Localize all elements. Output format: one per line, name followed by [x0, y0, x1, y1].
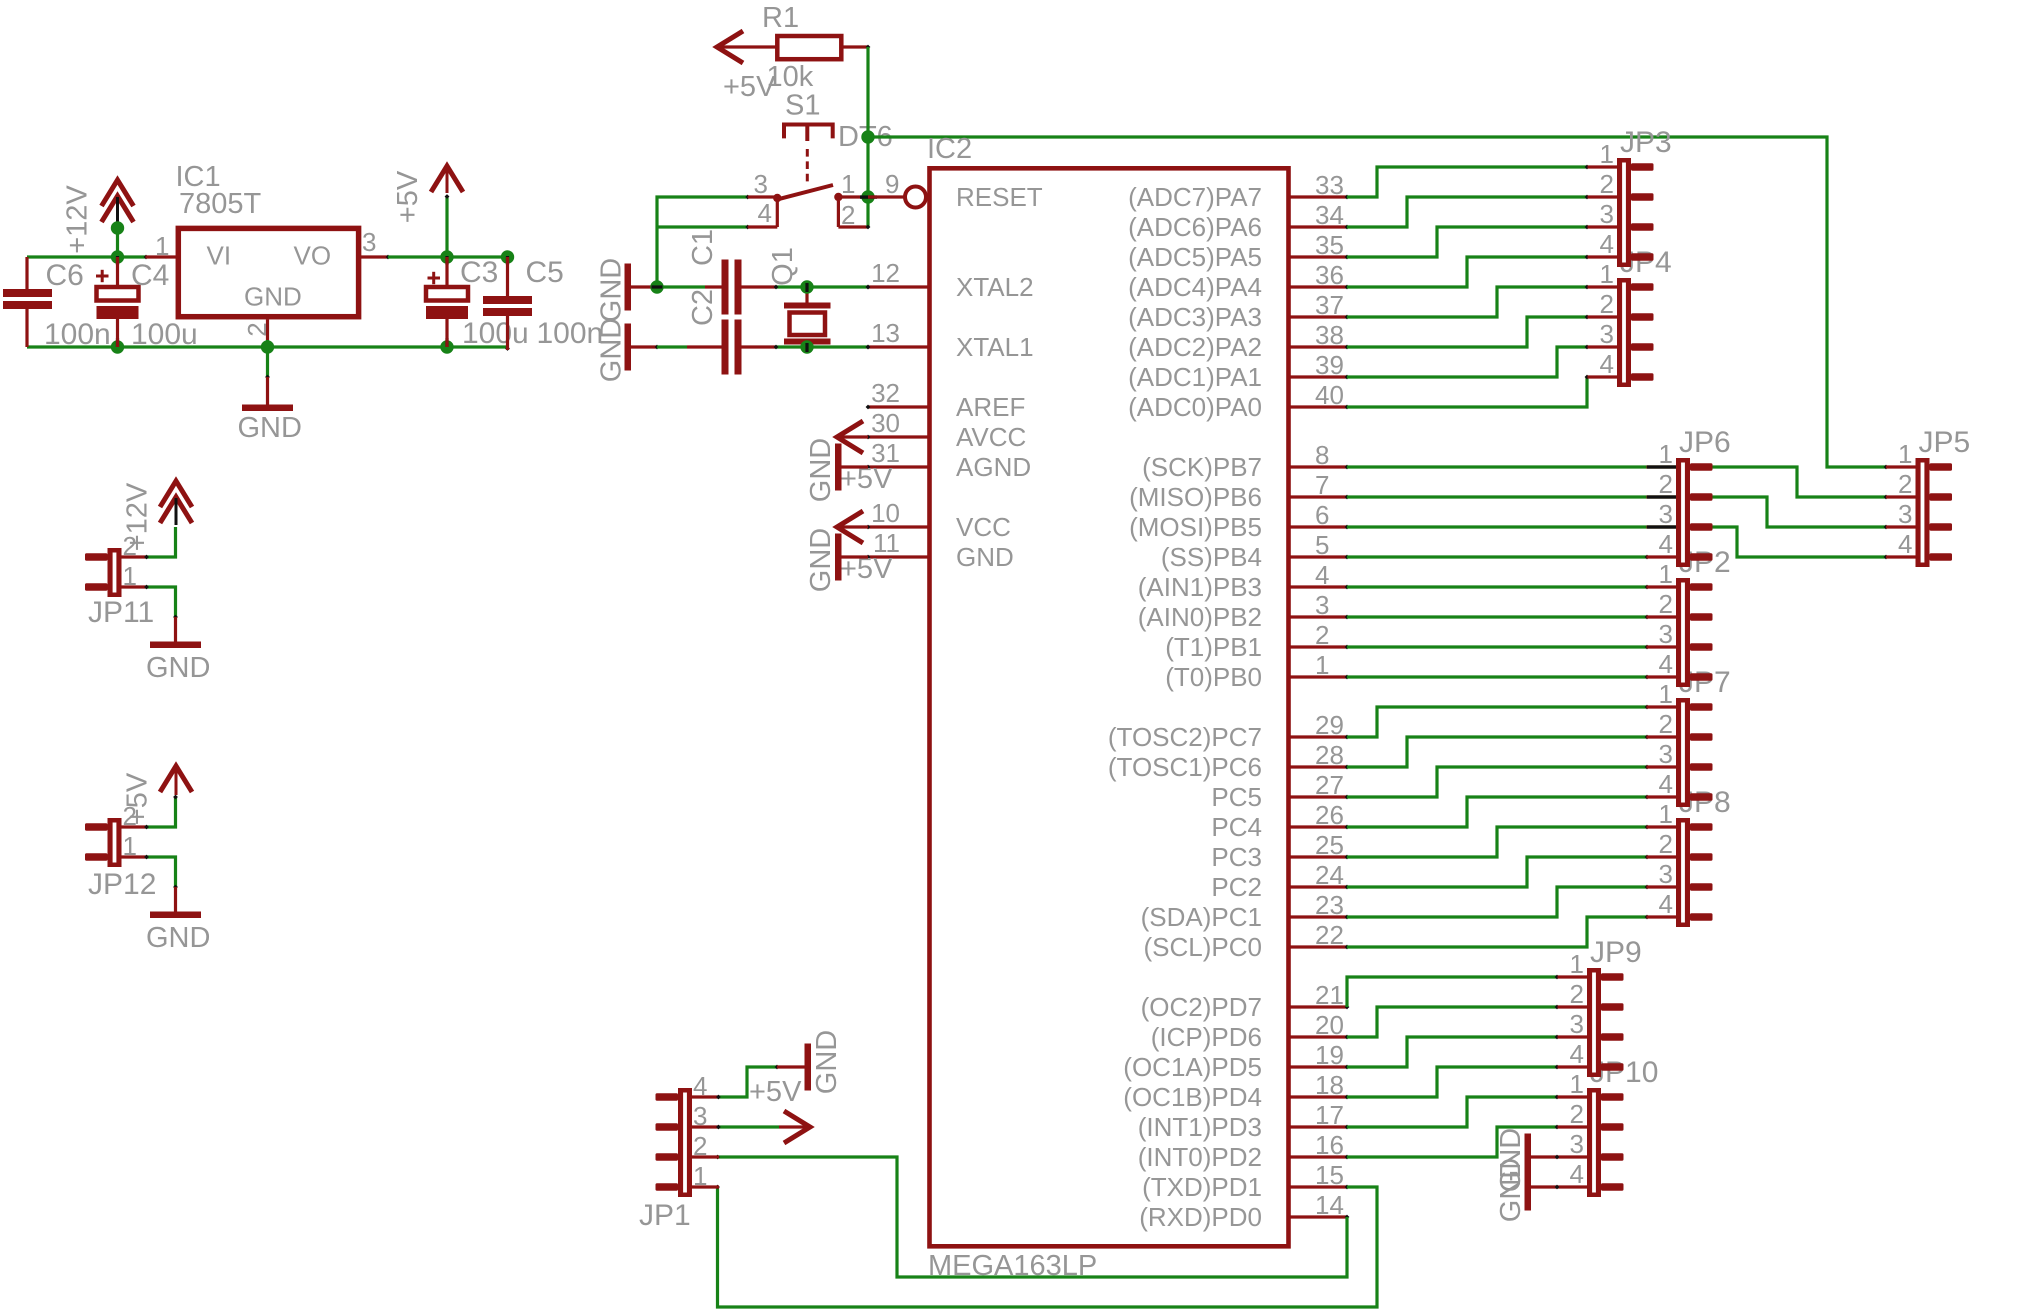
- svg-text:22: 22: [1315, 920, 1344, 950]
- svg-text:1: 1: [1898, 439, 1912, 469]
- ground GND (at JP10 pin 3): [1495, 1128, 1559, 1192]
- svg-text:10k: 10k: [767, 61, 814, 93]
- svg-text:1: 1: [123, 561, 137, 591]
- wire net PB6 (MISO): [1347, 497, 1888, 529]
- svg-text:2: 2: [1315, 620, 1329, 650]
- wire JP11 pin 2 to +12V: [144, 527, 175, 559]
- svg-text:GND: GND: [596, 258, 628, 322]
- wire net PC2: [1347, 855, 1649, 887]
- junction GND rail at C3: [440, 338, 453, 354]
- IC2 pin 38 (ADC2)PA2: [1128, 320, 1349, 362]
- svg-text:(SCK)PB7: (SCK)PB7: [1142, 452, 1262, 482]
- IC2 pin 12 XTAL2: [866, 258, 1034, 302]
- svg-text:VI: VI: [207, 241, 232, 271]
- svg-text:4: 4: [1659, 889, 1673, 919]
- svg-text:+5V: +5V: [122, 772, 154, 825]
- connector JP1: [639, 1071, 719, 1232]
- wire net PB0: [1347, 675, 1649, 680]
- wire net PA5: [1347, 225, 1589, 257]
- svg-text:3: 3: [754, 169, 768, 199]
- svg-text:4: 4: [1659, 649, 1673, 679]
- svg-text:S1: S1: [785, 90, 820, 122]
- svg-text:13: 13: [871, 318, 900, 348]
- svg-text:33: 33: [1315, 170, 1344, 200]
- svg-text:3: 3: [1600, 319, 1614, 349]
- wire JP12 pin 2 to +5V: [144, 795, 178, 830]
- IC2 pin 15 (TXD)PD1: [1142, 1160, 1349, 1202]
- ground GND (at C2): [596, 318, 660, 382]
- svg-text:AGND: AGND: [956, 452, 1031, 482]
- wire net PA6: [1347, 195, 1589, 227]
- IC2 pin 23 (SDA)PC1: [1141, 890, 1350, 932]
- power symbol +5V (at VCC): [837, 511, 893, 585]
- connector JP4: [1588, 246, 1672, 387]
- svg-text:PC5: PC5: [1211, 782, 1262, 812]
- svg-text:(ADC1)PA1: (ADC1)PA1: [1128, 362, 1262, 392]
- IC2 pin 11 GND: [866, 528, 1014, 572]
- svg-text:2: 2: [1659, 589, 1673, 619]
- svg-text:39: 39: [1315, 350, 1344, 380]
- svg-text:1: 1: [155, 231, 169, 261]
- junction XTAL2 at Q1: [800, 280, 813, 293]
- svg-text:(SDA)PC1: (SDA)PC1: [1141, 902, 1262, 932]
- connector JP11: [85, 531, 154, 629]
- svg-text:(ICP)PD6: (ICP)PD6: [1151, 1022, 1262, 1052]
- wire net PC1: [1347, 885, 1649, 917]
- svg-text:9: 9: [885, 169, 899, 199]
- svg-text:1: 1: [123, 831, 137, 861]
- svg-text:PC4: PC4: [1211, 812, 1262, 842]
- svg-text:3: 3: [1659, 859, 1673, 889]
- svg-text:JP11: JP11: [88, 596, 154, 629]
- IC2 pin 39 (ADC1)PA1: [1128, 350, 1349, 392]
- svg-text:17: 17: [1315, 1100, 1344, 1130]
- ground GND (below JP12): [146, 887, 210, 954]
- voltage regulator IC1 7805T: [146, 161, 391, 340]
- svg-text:C4: C4: [131, 259, 169, 292]
- svg-text:C2: C2: [687, 289, 719, 326]
- svg-text:6: 6: [1315, 500, 1329, 530]
- IC2 pin 7 (MISO)PB6: [1129, 470, 1349, 512]
- svg-text:2: 2: [841, 200, 855, 230]
- wire net PB5 (MOSI): [1347, 527, 1888, 559]
- svg-text:3: 3: [1659, 619, 1673, 649]
- wire JP1 pin 4 to GND: [716, 1065, 779, 1100]
- wire S1 to RESET: [866, 197, 871, 229]
- ground GND (at JP10 pin 4): [1495, 1158, 1559, 1222]
- wire net PC7: [1347, 705, 1649, 737]
- IC2 pin 29 (TOSC2)PC7: [1108, 710, 1350, 752]
- svg-text:26: 26: [1315, 800, 1344, 830]
- svg-text:(ADC6)PA6: (ADC6)PA6: [1128, 212, 1262, 242]
- ground GND (at AGND): [805, 438, 868, 502]
- connector JP5: [1886, 426, 1970, 567]
- wire net PB4 (SS): [1347, 555, 1649, 560]
- svg-text:4: 4: [693, 1071, 707, 1101]
- svg-text:3: 3: [362, 227, 376, 257]
- svg-text:(AIN1)PB3: (AIN1)PB3: [1138, 572, 1262, 602]
- wire net PA2: [1347, 315, 1589, 347]
- connector JP12: [85, 801, 156, 901]
- svg-text:1: 1: [693, 1161, 707, 1191]
- svg-text:100n: 100n: [44, 318, 111, 351]
- svg-text:VO: VO: [294, 241, 332, 271]
- svg-text:VCC: VCC: [956, 512, 1011, 542]
- IC2 pin 13 XTAL1: [866, 318, 1034, 362]
- IC2 pin 1 (T0)PB0: [1165, 650, 1349, 692]
- IC2 pin 4 (AIN1)PB3: [1138, 560, 1350, 602]
- svg-text:(TOSC2)PC7: (TOSC2)PC7: [1108, 722, 1262, 752]
- svg-text:JP12: JP12: [88, 868, 156, 901]
- IC2 pin 3 (AIN0)PB2: [1138, 590, 1350, 632]
- svg-text:GND: GND: [238, 412, 302, 444]
- svg-text:3: 3: [1898, 499, 1912, 529]
- wire net PA4: [1347, 255, 1589, 287]
- svg-text:GND: GND: [805, 438, 837, 502]
- svg-text:JP9: JP9: [1590, 936, 1642, 969]
- wire net PB1: [1347, 645, 1649, 650]
- svg-text:XTAL2: XTAL2: [956, 272, 1034, 302]
- wire net PD6: [1347, 1005, 1559, 1037]
- svg-text:20: 20: [1315, 1010, 1344, 1040]
- svg-text:IC2: IC2: [927, 133, 972, 165]
- wire JP1 pin 3 to +5V: [716, 1125, 779, 1130]
- svg-text:21: 21: [1315, 980, 1344, 1010]
- wire net RXD PD0 to JP1 pin 2: [715, 1155, 1347, 1277]
- capacitor C1: [687, 229, 776, 315]
- IC2 pin 28 (TOSC1)PC6: [1108, 740, 1350, 782]
- wire net PB3: [1347, 585, 1649, 590]
- wire GND to S1 and C1: [657, 195, 750, 287]
- IC2 pin 17 (INT1)PD3: [1138, 1100, 1350, 1142]
- svg-text:2: 2: [1600, 169, 1614, 199]
- svg-text:(SS)PB4: (SS)PB4: [1161, 542, 1262, 572]
- svg-text:(AIN0)PB2: (AIN0)PB2: [1138, 602, 1262, 632]
- svg-text:14: 14: [1315, 1190, 1344, 1220]
- svg-text:GND: GND: [146, 922, 210, 954]
- svg-text:4: 4: [1600, 229, 1614, 259]
- svg-text:40: 40: [1315, 380, 1344, 410]
- svg-text:RESET: RESET: [956, 182, 1043, 212]
- svg-text:3: 3: [1570, 1129, 1584, 1159]
- wire net PC6: [1347, 735, 1649, 767]
- connector JP7: [1647, 666, 1731, 807]
- svg-text:4: 4: [1315, 560, 1329, 590]
- svg-text:(T1)PB1: (T1)PB1: [1165, 632, 1262, 662]
- svg-text:1: 1: [841, 169, 855, 199]
- IC2 pin 16 (INT0)PD2: [1138, 1130, 1350, 1172]
- svg-text:37: 37: [1315, 290, 1344, 320]
- svg-text:PC2: PC2: [1211, 872, 1262, 902]
- power symbol +5V (at JP12): [122, 766, 193, 825]
- ground GND (below JP11): [146, 617, 210, 684]
- svg-text:36: 36: [1315, 260, 1344, 290]
- junction GND rail at IC1 pin 2: [261, 340, 274, 353]
- wire GND to C2: [657, 345, 687, 348]
- connector JP8: [1647, 786, 1731, 927]
- power symbol +12V (at JP11): [122, 481, 193, 551]
- svg-text:JP1: JP1: [639, 1199, 691, 1232]
- svg-text:JP3: JP3: [1620, 126, 1672, 159]
- svg-text:+5V: +5V: [749, 1076, 802, 1108]
- ground GND below IC1: [238, 377, 302, 444]
- svg-text:4: 4: [1659, 529, 1673, 559]
- IC2 pin 20 (ICP)PD6: [1151, 1010, 1350, 1052]
- wire +12V input rail: [27, 228, 148, 259]
- svg-text:4: 4: [1898, 529, 1912, 559]
- svg-text:JP5: JP5: [1919, 426, 1971, 459]
- capacitor C5: [483, 256, 603, 350]
- wire net PC3: [1347, 825, 1649, 857]
- IC2 pin 37 (ADC3)PA3: [1128, 290, 1349, 332]
- svg-text:(MISO)PB6: (MISO)PB6: [1129, 482, 1262, 512]
- svg-text:3: 3: [693, 1101, 707, 1131]
- svg-text:GND: GND: [146, 652, 210, 684]
- svg-text:C5: C5: [526, 256, 564, 289]
- svg-text:(TXD)PD1: (TXD)PD1: [1142, 1172, 1262, 1202]
- wire net PA1: [1347, 345, 1589, 377]
- svg-text:32: 32: [871, 378, 900, 408]
- microcontroller IC2 MEGA163LP: [927, 133, 1289, 1282]
- IC2 pin 9 RESET with inversion bubble: [868, 169, 1043, 212]
- IC2 pin 8 (SCK)PB7: [1142, 440, 1349, 482]
- svg-text:+12V: +12V: [122, 482, 154, 551]
- IC2 pin 24 PC2: [1211, 860, 1349, 902]
- svg-text:(OC2)PD7: (OC2)PD7: [1141, 992, 1262, 1022]
- wire net PA3: [1347, 285, 1589, 317]
- svg-text:(OC1A)PD5: (OC1A)PD5: [1123, 1052, 1262, 1082]
- junction +12V at C4: [111, 250, 124, 265]
- svg-text:(MOSI)PB5: (MOSI)PB5: [1129, 512, 1262, 542]
- wire JP11 pin 1 to GND: [144, 585, 178, 620]
- svg-text:5: 5: [1315, 530, 1329, 560]
- IC2 pin 30 AVCC: [866, 408, 1027, 452]
- svg-text:2: 2: [1659, 709, 1673, 739]
- wire net PA7: [1347, 165, 1589, 197]
- svg-text:(ADC2)PA2: (ADC2)PA2: [1128, 332, 1262, 362]
- resistor R1 10k: [762, 2, 870, 93]
- svg-text:2: 2: [1570, 979, 1584, 1009]
- IC2 pin 33 (ADC7)PA7: [1128, 170, 1349, 212]
- svg-text:100n: 100n: [537, 317, 604, 350]
- svg-text:25: 25: [1315, 830, 1344, 860]
- svg-text:(OC1B)PD4: (OC1B)PD4: [1123, 1082, 1262, 1112]
- capacitor C4 (polarized): [96, 257, 198, 351]
- svg-text:(SCL)PC0: (SCL)PC0: [1144, 932, 1262, 962]
- wire net XTAL1: [774, 345, 871, 350]
- wire net PC5: [1347, 765, 1649, 797]
- svg-text:(ADC5)PA5: (ADC5)PA5: [1128, 242, 1262, 272]
- svg-text:1: 1: [1659, 799, 1673, 829]
- svg-text:2: 2: [1570, 1099, 1584, 1129]
- wire net TXD PD1 to JP1 pin 1: [715, 1185, 1377, 1307]
- IC2 pin 21 (OC2)PD7: [1141, 980, 1350, 1022]
- svg-text:1: 1: [1315, 650, 1329, 680]
- svg-text:28: 28: [1315, 740, 1344, 770]
- svg-text:15: 15: [1315, 1160, 1344, 1190]
- svg-text:3: 3: [1659, 739, 1673, 769]
- svg-text:C1: C1: [687, 229, 719, 266]
- power symbol +5V (at C3): [392, 166, 463, 223]
- switch S1 actuator dashed line: [806, 149, 809, 186]
- svg-text:(RXD)PD0: (RXD)PD0: [1139, 1202, 1262, 1232]
- IC2 pin 31 AGND: [866, 438, 1032, 482]
- svg-text:1: 1: [1659, 679, 1673, 709]
- svg-text:3: 3: [1570, 1009, 1584, 1039]
- capacitor C3 (polarized): [426, 256, 529, 350]
- ground GND (at IC2 GND): [805, 528, 868, 592]
- crystal Q1: [767, 247, 831, 347]
- IC2 pin 27 PC5: [1211, 770, 1349, 812]
- wire net PD2: [1347, 1125, 1559, 1157]
- svg-text:+12V: +12V: [62, 185, 94, 254]
- svg-text:PC3: PC3: [1211, 842, 1262, 872]
- wire GND bottom rail: [27, 340, 510, 379]
- wire net PD7: [1347, 975, 1559, 1007]
- svg-text:19: 19: [1315, 1040, 1344, 1070]
- wire net DT6: [868, 47, 1888, 469]
- svg-text:38: 38: [1315, 320, 1344, 350]
- svg-text:AREF: AREF: [956, 392, 1025, 422]
- svg-text:24: 24: [1315, 860, 1344, 890]
- svg-text:GND: GND: [811, 1030, 843, 1094]
- connector JP9: [1558, 936, 1642, 1077]
- IC2 pin 32 AREF: [866, 378, 1026, 422]
- svg-text:30: 30: [871, 408, 900, 438]
- IC2 pin 36 (ADC4)PA4: [1128, 260, 1349, 302]
- svg-text:2: 2: [242, 322, 272, 336]
- wire net PA0: [1347, 375, 1589, 407]
- svg-text:(ADC7)PA7: (ADC7)PA7: [1128, 182, 1262, 212]
- svg-text:10: 10: [871, 498, 900, 528]
- wire net PD3: [1347, 1095, 1559, 1127]
- IC2 pin 6 (MOSI)PB5: [1129, 500, 1349, 542]
- junction RESET: [860, 190, 877, 203]
- svg-text:(ADC3)PA3: (ADC3)PA3: [1128, 302, 1262, 332]
- svg-text:1: 1: [1659, 439, 1673, 469]
- svg-text:C6: C6: [46, 259, 84, 292]
- wire +5V output rail: [388, 194, 508, 257]
- connector JP3: [1588, 126, 1672, 267]
- svg-text:18: 18: [1315, 1070, 1344, 1100]
- wire net PC0: [1347, 915, 1649, 947]
- svg-text:(ADC0)PA0: (ADC0)PA0: [1128, 392, 1262, 422]
- svg-text:4: 4: [1659, 769, 1673, 799]
- IC2 pin 14 (RXD)PD0: [1139, 1190, 1349, 1232]
- svg-text:1: 1: [1600, 139, 1614, 169]
- svg-text:3: 3: [1659, 499, 1673, 529]
- svg-text:29: 29: [1315, 710, 1344, 740]
- svg-text:4: 4: [1570, 1159, 1584, 1189]
- svg-text:4: 4: [1600, 349, 1614, 379]
- svg-text:Q1: Q1: [767, 247, 799, 286]
- wire overlap at JP6 pins: [1647, 465, 1676, 528]
- svg-text:7: 7: [1315, 470, 1329, 500]
- svg-text:4: 4: [1570, 1039, 1584, 1069]
- IC2 pin 25 PC3: [1211, 830, 1349, 872]
- junction GND C1: [650, 280, 663, 293]
- svg-text:GND: GND: [805, 528, 837, 592]
- svg-text:100u: 100u: [131, 318, 198, 351]
- svg-text:8: 8: [1315, 440, 1329, 470]
- svg-text:2: 2: [1600, 289, 1614, 319]
- IC2 pin 2 (T1)PB1: [1165, 620, 1349, 662]
- svg-text:(ADC4)PA4: (ADC4)PA4: [1128, 272, 1262, 302]
- svg-text:23: 23: [1315, 890, 1344, 920]
- IC2 pin 18 (OC1B)PD4: [1123, 1070, 1349, 1112]
- svg-text:3: 3: [1315, 590, 1329, 620]
- svg-text:4: 4: [758, 198, 772, 228]
- junction XTAL1 at Q1: [800, 340, 813, 353]
- IC2 pin 35 (ADC5)PA5: [1128, 230, 1349, 272]
- svg-text:C3: C3: [460, 256, 498, 289]
- svg-text:1: 1: [1659, 559, 1673, 589]
- IC2 pin 40 (ADC0)PA0: [1128, 380, 1349, 422]
- svg-text:GND: GND: [596, 318, 628, 382]
- svg-text:27: 27: [1315, 770, 1344, 800]
- svg-text:XTAL1: XTAL1: [956, 332, 1034, 362]
- wire net PD4: [1347, 1065, 1559, 1097]
- svg-text:JP6: JP6: [1679, 426, 1731, 459]
- svg-text:3: 3: [1600, 199, 1614, 229]
- wire net PB7 (SCK): [1347, 467, 1888, 499]
- junction +12V symbol pin: [111, 221, 124, 234]
- connector JP6: [1647, 426, 1731, 567]
- svg-text:GND: GND: [956, 542, 1014, 572]
- svg-text:GND: GND: [244, 282, 302, 312]
- svg-text:34: 34: [1315, 200, 1344, 230]
- junction +5V at C5: [501, 250, 514, 265]
- power symbol +5V (at AVCC): [837, 421, 893, 495]
- svg-text:12: 12: [871, 258, 900, 288]
- IC2 pin 26 PC4: [1211, 800, 1349, 842]
- svg-text:100u: 100u: [462, 317, 529, 350]
- svg-text:(T0)PB0: (T0)PB0: [1165, 662, 1262, 692]
- svg-text:1: 1: [1570, 1069, 1584, 1099]
- wire net XTAL2: [774, 285, 871, 290]
- svg-text:35: 35: [1315, 230, 1344, 260]
- wire JP12 pin 1 to GND: [144, 855, 178, 890]
- capacitor C2: [687, 289, 776, 375]
- wire net PC4: [1347, 795, 1649, 827]
- switch S1: [748, 90, 868, 231]
- connector JP10: [1558, 1056, 1659, 1197]
- svg-text:(INT0)PD2: (INT0)PD2: [1138, 1142, 1262, 1172]
- junction GND rail at C4: [111, 338, 124, 354]
- IC2 pin 5 (SS)PB4: [1161, 530, 1350, 572]
- svg-text:(INT1)PD3: (INT1)PD3: [1138, 1112, 1262, 1142]
- IC2 pin 22 (SCL)PC0: [1144, 920, 1350, 962]
- power symbol +5V (at JP1 pin 3): [749, 1076, 810, 1143]
- svg-text:1: 1: [1600, 259, 1614, 289]
- svg-text:16: 16: [1315, 1130, 1344, 1160]
- IC2 pin 34 (ADC6)PA6: [1128, 200, 1349, 242]
- svg-text:2: 2: [1659, 469, 1673, 499]
- connector JP2: [1647, 546, 1731, 687]
- capacitor C6: [3, 257, 111, 351]
- svg-text:2: 2: [1898, 469, 1912, 499]
- power symbol +12V (top left): [62, 180, 134, 254]
- svg-text:2: 2: [1659, 829, 1673, 859]
- svg-text:2: 2: [693, 1131, 707, 1161]
- wire net PB2: [1347, 615, 1649, 620]
- svg-text:1: 1: [1570, 949, 1584, 979]
- svg-text:R1: R1: [762, 2, 799, 34]
- svg-text:AVCC: AVCC: [956, 422, 1026, 452]
- IC2 pin 19 (OC1A)PD5: [1123, 1040, 1349, 1082]
- IC2 pin 10 VCC: [866, 498, 1011, 542]
- ground GND (at JP1 pin 4): [777, 1030, 843, 1094]
